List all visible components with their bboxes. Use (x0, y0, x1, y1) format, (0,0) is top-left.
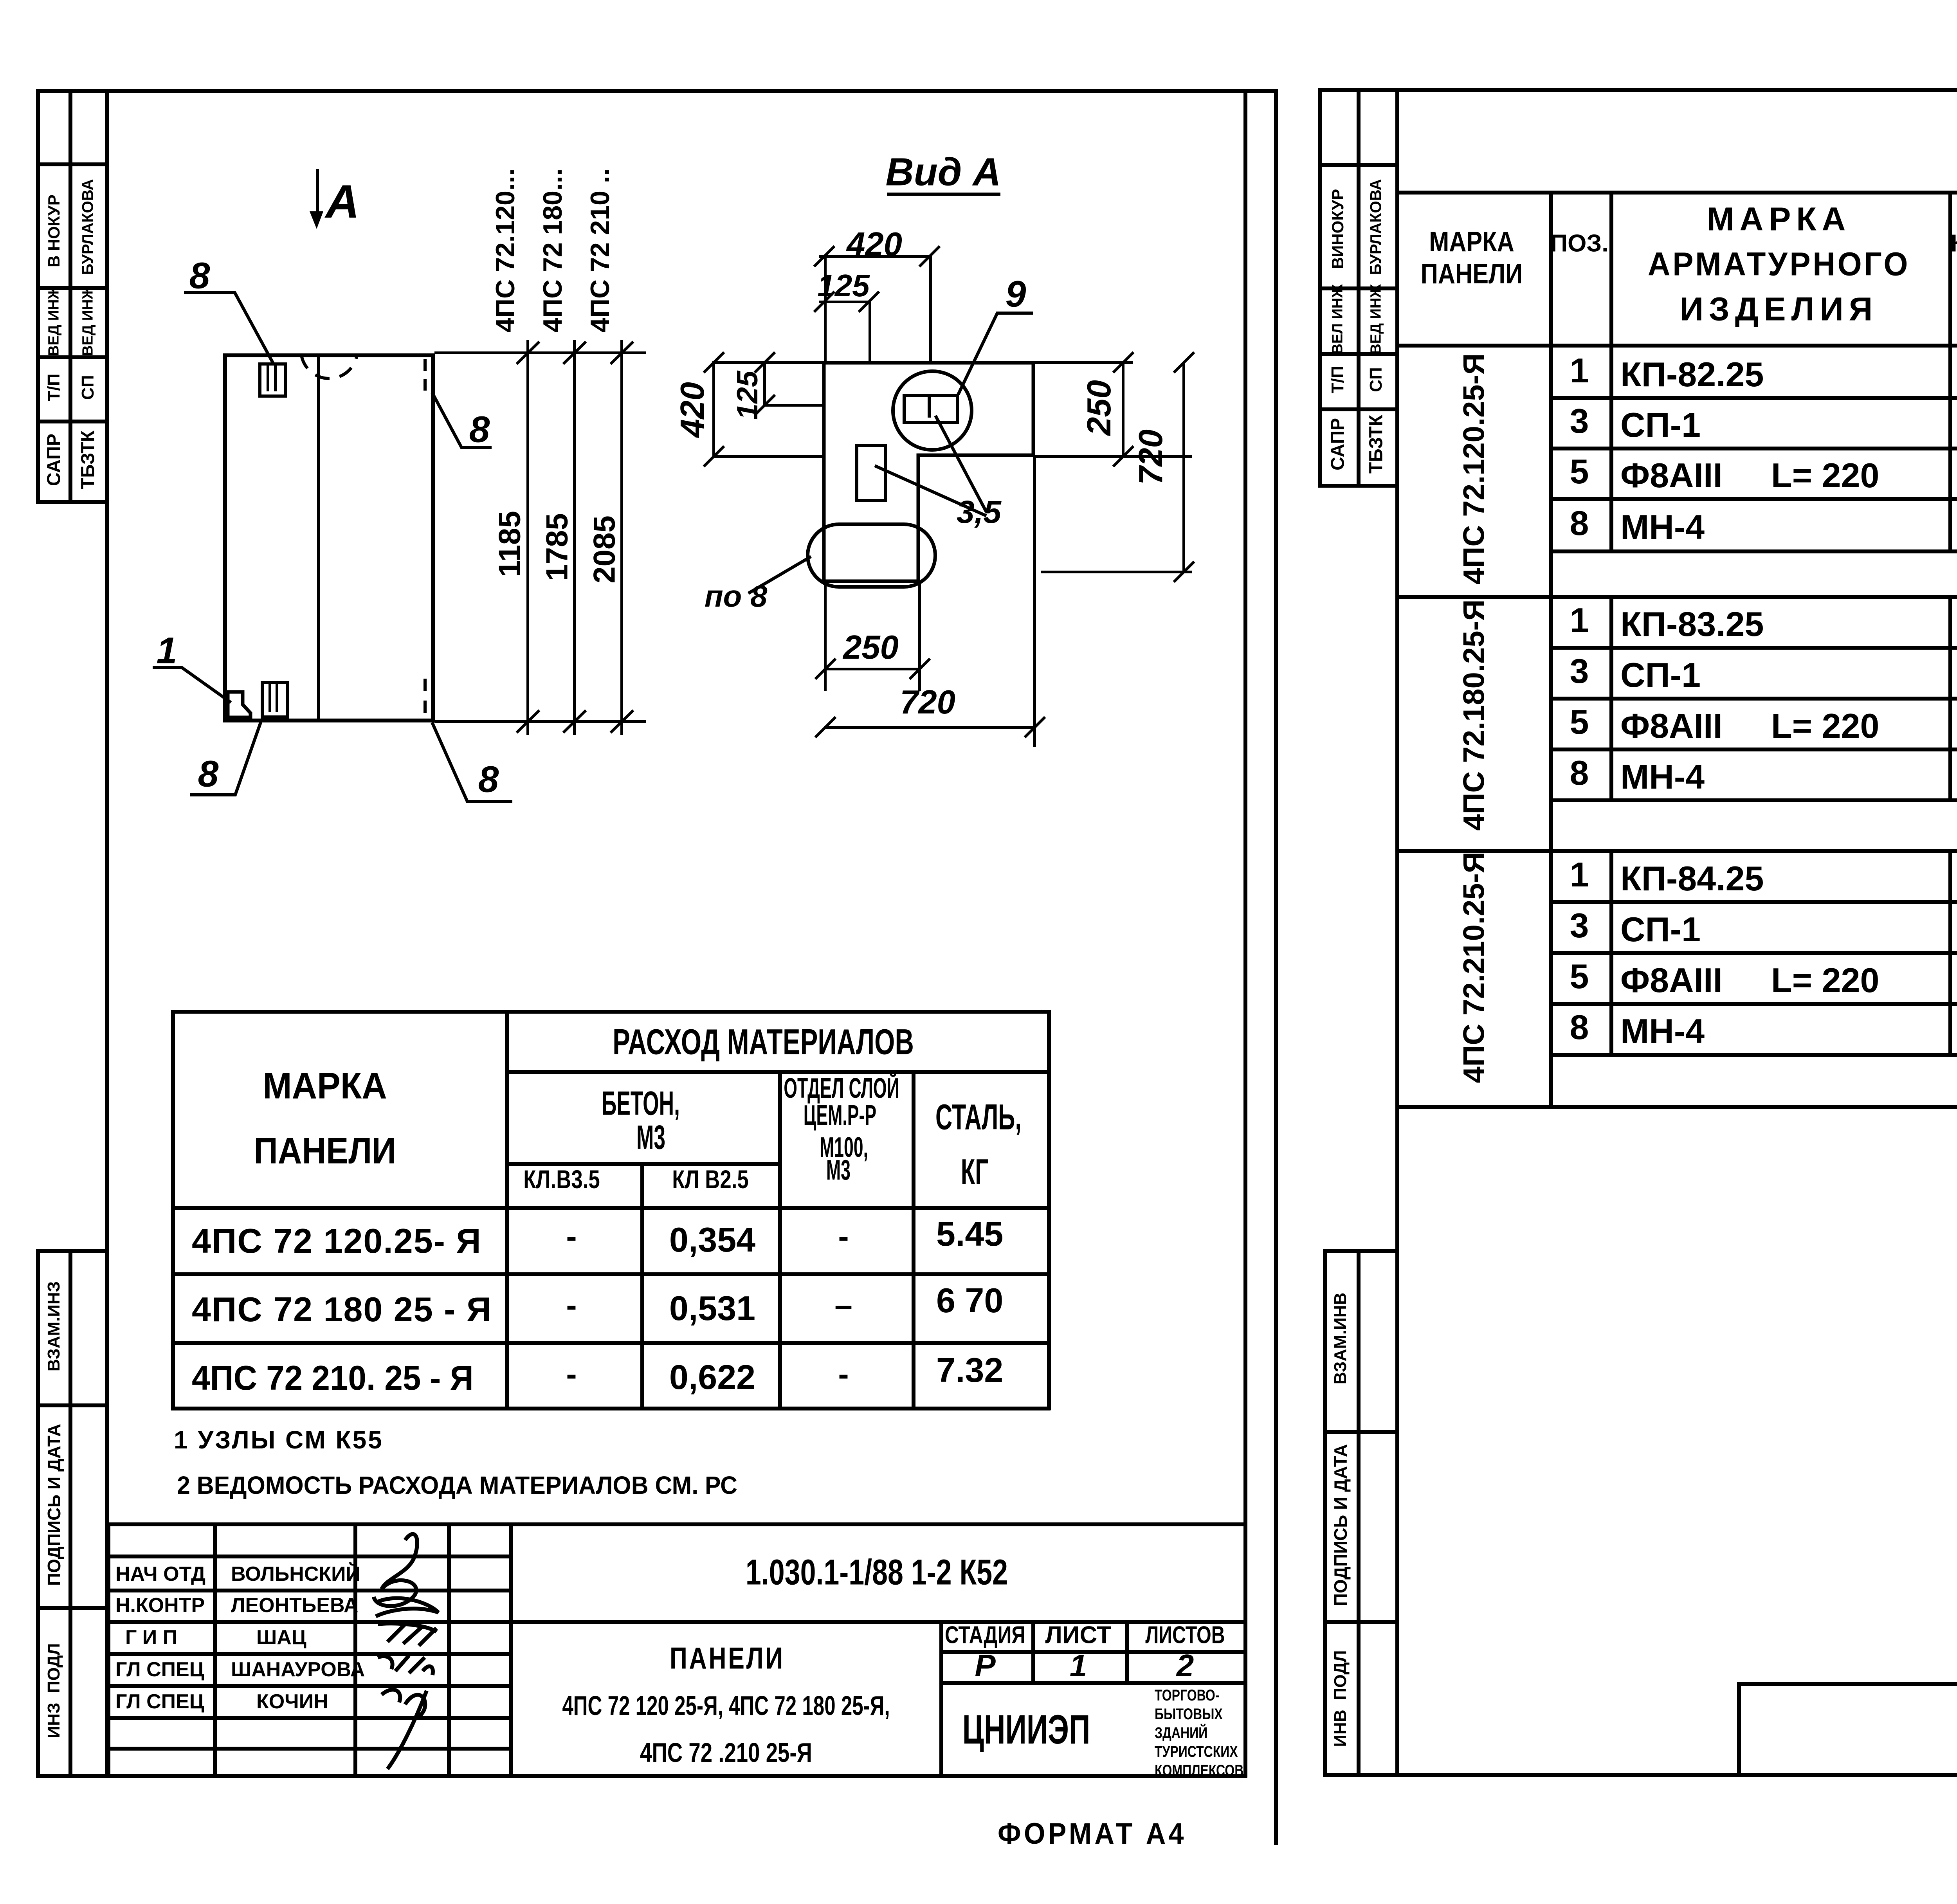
group vertical labels (1457, 353, 1491, 585)
right 720 (1132, 429, 1170, 485)
bottom-right edge dashes (423, 679, 427, 691)
right dimension lines (434, 351, 646, 354)
body group 3 lines (1549, 900, 1957, 904)
stadium (806, 522, 937, 589)
notes (174, 1425, 384, 1454)
group 3 data (1570, 855, 1589, 895)
RIGHT SIDEBAR lower (1323, 1249, 1327, 1776)
body group 1 lines (1549, 396, 1957, 400)
LEFT SIDEBAR lower block (36, 1249, 40, 1778)
top-right edge dashes (423, 359, 427, 371)
panel rect (223, 353, 434, 357)
group 1 data (1570, 351, 1589, 391)
right 250 (1080, 380, 1119, 436)
left 125 vertical (730, 371, 764, 420)
body group 2 lines (1549, 646, 1957, 650)
bottom 720 (900, 683, 955, 722)
circle detail (891, 369, 973, 452)
small rect (855, 444, 887, 502)
vid A dimensions: top 420 (847, 225, 902, 264)
bottom 250 (843, 629, 899, 667)
RIGHT SIDEBAR upper (1318, 88, 1322, 487)
view arrow A (316, 169, 319, 216)
middle separator (1274, 89, 1278, 1845)
top-left anchor detail (258, 362, 287, 398)
group 2 data (1570, 600, 1589, 640)
125 (817, 268, 869, 304)
big cell texts (746, 1552, 1008, 1593)
left 420 vertical (674, 382, 712, 438)
LEFT SIDEBAR upper block (36, 89, 40, 504)
stadia cells (939, 1650, 1245, 1654)
